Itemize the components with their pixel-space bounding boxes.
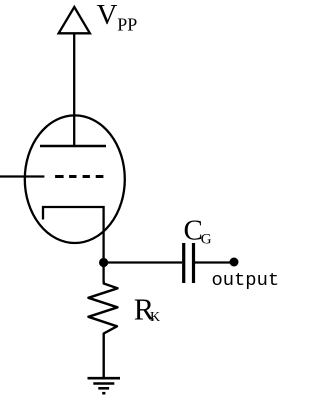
svg-text:output: output (212, 269, 279, 291)
svg-text:V: V (97, 0, 118, 31)
svg-text:K: K (150, 310, 160, 325)
svg-text:G: G (201, 232, 212, 248)
svg-text:PP: PP (117, 15, 137, 35)
